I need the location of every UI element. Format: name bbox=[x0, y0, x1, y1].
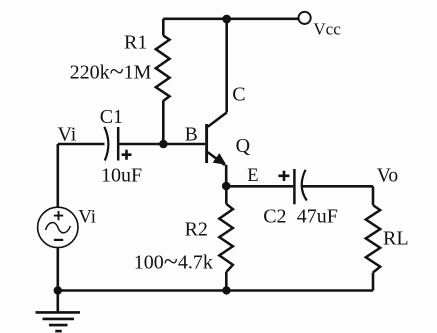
svg-text:100~4.7k: 100~4.7k bbox=[134, 247, 213, 276]
svg-text:Vi: Vi bbox=[58, 124, 77, 146]
svg-text:RL: RL bbox=[383, 227, 409, 249]
svg-text:C2: C2 bbox=[263, 205, 286, 227]
svg-text:47uF: 47uF bbox=[297, 205, 338, 227]
svg-text:Vi: Vi bbox=[78, 207, 96, 228]
svg-text:R1: R1 bbox=[124, 32, 147, 54]
svg-text:R2: R2 bbox=[185, 219, 208, 241]
svg-text:10uF: 10uF bbox=[101, 164, 142, 186]
svg-text:Vo: Vo bbox=[377, 166, 398, 187]
svg-text:Q: Q bbox=[236, 135, 251, 157]
svg-text:Vcc: Vcc bbox=[313, 19, 341, 38]
svg-text:C1: C1 bbox=[100, 106, 123, 128]
svg-text:E: E bbox=[247, 166, 258, 186]
svg-text:C: C bbox=[232, 83, 245, 105]
svg-text:220k~1M: 220k~1M bbox=[70, 57, 152, 86]
svg-text:B: B bbox=[185, 125, 198, 146]
